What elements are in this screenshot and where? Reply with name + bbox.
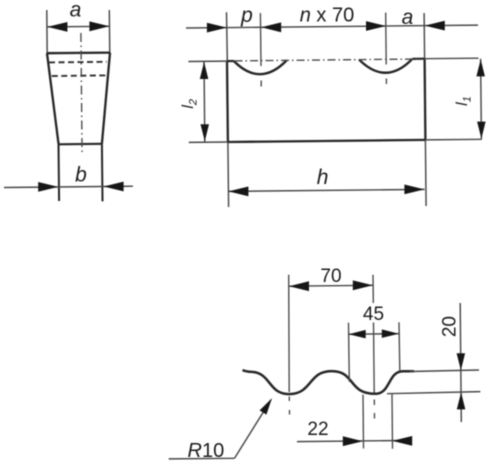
svg-text:a: a — [70, 0, 82, 22]
svg-text:p: p — [240, 4, 253, 27]
svg-text:n x 70: n x 70 — [300, 4, 354, 26]
svg-text:a: a — [402, 6, 414, 29]
svg-text:b: b — [75, 163, 87, 186]
svg-text:20: 20 — [439, 316, 460, 337]
svg-text:45: 45 — [363, 304, 384, 325]
svg-text:h: h — [317, 166, 329, 189]
svg-text:22: 22 — [307, 419, 328, 440]
svg-text:l2: l2 — [180, 99, 200, 109]
svg-text:l1: l1 — [454, 96, 474, 106]
svg-text:70: 70 — [320, 266, 341, 287]
svg-text:R10: R10 — [188, 440, 225, 462]
